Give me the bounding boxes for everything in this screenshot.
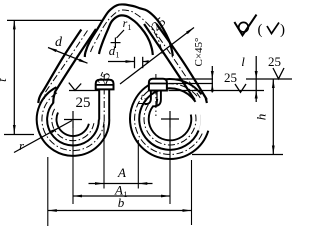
C arrow up bbox=[211, 84, 214, 92]
h dim vertical bbox=[272, 79, 274, 155]
d1 right ext tick bbox=[142, 57, 144, 68]
t1 arrow line bbox=[156, 92, 158, 105]
25 leader arrow bbox=[186, 28, 194, 35]
left loop inner coil outer edge (shared) bbox=[49, 128, 98, 145]
cap top ext line bbox=[169, 78, 214, 80]
cap chamfer ext line bbox=[169, 83, 214, 85]
right rod cap bbox=[149, 79, 167, 91]
left loop inner coil inner edge bbox=[56, 113, 88, 137]
svg-text:): ) bbox=[280, 22, 285, 38]
svg-text:d: d bbox=[55, 35, 63, 50]
left rod centerline bbox=[103, 74, 105, 124]
right loop inner coil outer edge (shared) bbox=[139, 104, 201, 150]
b right extension line bbox=[191, 160, 193, 225]
t top arrow bbox=[13, 20, 16, 29]
cap bottom ext line bbox=[169, 90, 265, 92]
left rod right edge bbox=[108, 89, 110, 120]
25 right tick bbox=[273, 68, 284, 79]
A dimension line bbox=[89, 183, 153, 185]
svg-text:1: 1 bbox=[116, 51, 120, 60]
25 mid tick bbox=[235, 84, 246, 92]
h bottom reference line bbox=[192, 154, 283, 156]
l dim vertical bbox=[255, 56, 257, 102]
t1 underline bbox=[139, 103, 150, 105]
t lower extension line bbox=[4, 134, 34, 136]
right leg centerline dash-dot bbox=[151, 26, 200, 98]
svg-text:b: b bbox=[118, 195, 125, 210]
svg-text:(: ( bbox=[258, 22, 263, 38]
b dimension line bbox=[48, 210, 192, 212]
A1 right arrow bbox=[161, 195, 170, 198]
d1 dim line left bbox=[108, 61, 135, 63]
d1 left ext tick bbox=[134, 57, 136, 68]
left loop inner coil centerline bbox=[52, 109, 94, 141]
svg-text:l: l bbox=[241, 54, 245, 69]
A1 dimension line bbox=[73, 195, 170, 197]
right loop center mark bbox=[161, 118, 179, 120]
right leg outer edge bbox=[157, 24, 207, 103]
b right arrow bbox=[183, 209, 192, 212]
svg-text:h: h bbox=[254, 114, 269, 121]
A1 left arrow bbox=[73, 195, 82, 198]
right loop outer coil centerline bbox=[135, 84, 203, 155]
left leg outer edge bbox=[38, 30, 81, 104]
A right extension line bbox=[137, 140, 139, 189]
right loop outer coil outer edge bbox=[130, 79, 208, 159]
t bottom arrow bbox=[13, 125, 16, 134]
r leader line bbox=[14, 121, 72, 153]
top extension line bbox=[7, 19, 102, 21]
right leg inner edge bbox=[144, 24, 195, 100]
l arrow down bbox=[255, 71, 258, 79]
b left extension line bbox=[47, 157, 49, 226]
apex dome inner edge bbox=[99, 15, 153, 55]
right rod left edge into coil bbox=[145, 91, 151, 105]
svg-text:25: 25 bbox=[268, 54, 281, 69]
left leg centerline dash-dot bbox=[44, 31, 87, 100]
d arrow upper bbox=[48, 48, 57, 53]
svg-text:1: 1 bbox=[128, 23, 132, 32]
right loop inner coil inner edge bbox=[149, 106, 192, 140]
top ref line right bbox=[246, 78, 292, 80]
25 leader line bbox=[120, 28, 194, 85]
C arrow down bbox=[211, 71, 214, 79]
A left extension line bbox=[103, 124, 105, 189]
svg-text:t: t bbox=[0, 78, 9, 82]
svg-text:C×45°: C×45° bbox=[193, 38, 205, 67]
d1 left arrow bbox=[126, 60, 135, 63]
r1 leader bbox=[117, 30, 125, 38]
right loop outer coil inner edge bbox=[139, 88, 198, 150]
left rod left edge bbox=[98, 89, 100, 120]
25 tick mark left loop bbox=[69, 83, 81, 91]
A1 left extension line bbox=[72, 128, 74, 204]
svg-text:25: 25 bbox=[224, 70, 237, 85]
left loop center mark bbox=[64, 119, 82, 121]
right loop inner coil centerline bbox=[144, 105, 196, 145]
right cap chamfer line bbox=[149, 83, 167, 85]
left leg inner edge bbox=[53, 29, 96, 103]
left loop outer coil inner edge bbox=[47, 103, 99, 146]
h bottom arrow bbox=[272, 146, 275, 155]
right rod centerline bbox=[155, 74, 157, 116]
left loop outer coil centerline bbox=[42, 93, 104, 151]
C dim vertical bbox=[211, 66, 213, 93]
surface finish symbol bbox=[234, 15, 256, 36]
apex center mark bbox=[111, 42, 121, 44]
25 extension line left loop bbox=[69, 90, 99, 92]
d1 dim line right bbox=[143, 61, 148, 63]
svg-text:A: A bbox=[117, 165, 126, 180]
d diameter line bbox=[48, 48, 88, 64]
left cap chamfer line bbox=[96, 84, 114, 86]
A left arrow bbox=[95, 182, 104, 185]
A1 right extension line bbox=[169, 128, 171, 205]
right rod right edge into coil bbox=[153, 91, 161, 107]
A right arrow bbox=[138, 182, 147, 185]
t dimension line bbox=[13, 20, 15, 134]
h top arrow bbox=[272, 79, 275, 88]
l arrow up bbox=[255, 91, 258, 99]
d arrow lower bbox=[79, 59, 88, 64]
d1 right arrow bbox=[143, 60, 149, 63]
apex dome outer edge bbox=[85, 4, 173, 57]
t1 arrow bbox=[156, 99, 158, 106]
left loop outer coil outer edge bbox=[37, 87, 110, 156]
svg-text:25: 25 bbox=[76, 95, 91, 111]
r leader arrow bbox=[51, 127, 60, 133]
apex dome centerline dash-dot bbox=[91, 10, 163, 54]
left rod cap bbox=[96, 80, 114, 90]
b left arrow bbox=[48, 209, 57, 212]
